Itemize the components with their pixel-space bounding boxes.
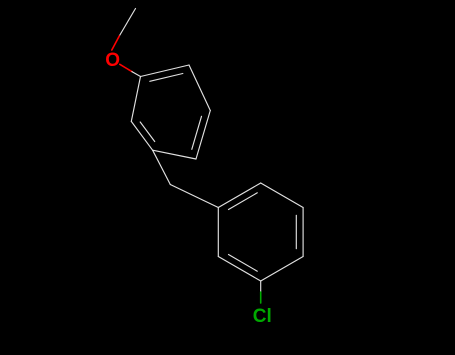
ring2 bond C3'-C4' bbox=[302, 208, 304, 257]
ring1 bond C6-C1 bbox=[131, 77, 140, 122]
ring2 bond C2'-C3' bbox=[261, 183, 303, 208]
ring2 bond C5'-C6' bbox=[218, 257, 260, 282]
bond C4'-Cl (white half) bbox=[260, 281, 262, 292]
ring2 bond C6'-C1' bbox=[217, 208, 219, 257]
ring2 bond C4'-C5' bbox=[261, 257, 303, 282]
bond C5-CH2 bbox=[153, 150, 171, 184]
svg-text:Cl: Cl bbox=[253, 306, 272, 327]
bond O-C1 (red half near O) bbox=[120, 64, 132, 71]
ring1 bond C2-C3 bbox=[189, 65, 210, 111]
ring2 bond C1'-C2' bbox=[218, 183, 260, 208]
ring1 bond C5-C6 bbox=[131, 121, 152, 150]
bond C4'-Cl (green half near Cl) bbox=[260, 292, 262, 303]
ring1 bond C4-C5 bbox=[153, 150, 196, 159]
bond CH3-O (white half) bbox=[119, 9, 135, 37]
ring1 double-bond inner line C1-C2 bbox=[150, 74, 183, 82]
ring1 bond C3-C4 bbox=[196, 111, 210, 160]
ring1 double-bond inner line C5-C6 bbox=[140, 122, 155, 142]
ring1 double-bond inner line C3-C4 bbox=[192, 116, 202, 149]
bond O-C1 (white half) bbox=[132, 72, 141, 77]
bond CH2-ring2 bbox=[170, 185, 218, 208]
ring1 bond C1-C2 bbox=[141, 65, 190, 77]
bond CH3-O (red half near O) bbox=[112, 36, 120, 50]
svg-text:O: O bbox=[105, 50, 120, 71]
ring2 double-bond inner line C5'-C6' bbox=[229, 255, 258, 272]
ring2 double-bond inner line C3'-C4' bbox=[295, 215, 297, 248]
ring2 double-bond inner line C1'-C2' bbox=[229, 193, 258, 210]
